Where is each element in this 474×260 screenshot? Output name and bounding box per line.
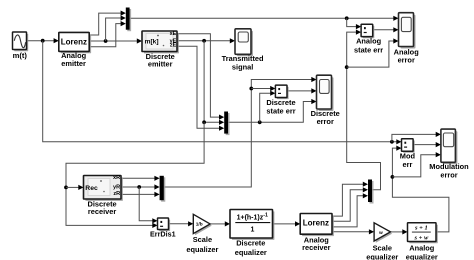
label Discrete error xyxy=(311,109,340,126)
junction node yE at Mux2 xyxy=(202,120,206,124)
wire Analog state err out to Analog error scope in2 xyxy=(374,29,394,31)
arrowhead into ErrDis1 in1 xyxy=(152,218,157,223)
svg-text:xR: xR xyxy=(113,175,120,181)
block U2 Discrete emitter xyxy=(142,31,179,53)
scope Discrete error xyxy=(317,75,334,111)
arrowhead into Mux2 in3 xyxy=(219,126,224,131)
svg-text:ErrDis1: ErrDis1 xyxy=(150,229,176,238)
arrowhead into Analog equalizer xyxy=(402,229,407,234)
svg-text:Lorenz: Lorenz xyxy=(303,219,329,228)
block U6 Analog equalizer (s+1)/(s+w) xyxy=(408,223,438,244)
svg-text:Lorenz: Lorenz xyxy=(61,38,87,47)
label Analog equalizer xyxy=(406,243,438,260)
arrowhead into Mux4 in1 xyxy=(363,182,368,187)
label Discrete emitter xyxy=(146,52,175,69)
svg-text:signal: signal xyxy=(232,63,253,72)
svg-text:s + 1: s + 1 xyxy=(414,224,428,231)
arrowhead into Discrete error scope in1 xyxy=(311,77,316,82)
label Transmitted signal xyxy=(222,54,264,71)
wire xR to Mux3 in1 xyxy=(121,177,155,179)
wire Analog emitter out1 xE to Mux1 in1 xyxy=(89,13,121,35)
wire Scale equalizer G1 out to Discrete equalizer xyxy=(210,223,226,225)
arrowhead into Mux1 in2 xyxy=(121,15,126,20)
label Mod err xyxy=(400,152,416,169)
wire branch to Analog error scope in3 xyxy=(347,41,394,67)
svg-text:error: error xyxy=(317,117,334,126)
junction node analog states xyxy=(345,16,349,20)
label Scale equalizer 1 xyxy=(186,235,218,254)
arrowhead into Mux1 in3 xyxy=(121,21,126,26)
wire branch to Modulation error scope in3 xyxy=(392,155,436,177)
svg-text:1: 1 xyxy=(250,227,254,234)
svg-text:error: error xyxy=(398,56,415,65)
sum S2 Analog state err xyxy=(361,24,374,38)
mux M2 discrete emitter states xyxy=(224,112,229,136)
junction node transmitted yE xyxy=(202,39,206,43)
svg-text:Rec: Rec xyxy=(85,185,98,192)
svg-text:xE: xE xyxy=(170,31,177,37)
svg-text:Scale: Scale xyxy=(193,235,212,244)
svg-text:emitter: emitter xyxy=(148,60,173,69)
arrowhead into Discrete state err in2 xyxy=(270,91,275,96)
arrowhead into ErrDis1 in2 xyxy=(152,223,157,228)
label Analog receiver xyxy=(302,236,330,253)
wire Discrete emitter xE to Mux2 in1 xyxy=(177,34,220,117)
arrowhead into Modulation error scope in2 xyxy=(436,142,441,147)
sum S1 Discrete state err xyxy=(275,85,288,99)
wire Discrete emitter zE to Mux2 in3 xyxy=(177,46,220,128)
arrowhead into Mux3 in2 xyxy=(154,184,159,189)
wire Analog receiver out2 to Mux4 in2 xyxy=(332,190,364,222)
arrowhead into Discrete emitter xyxy=(137,38,142,43)
wire Scale equalizer G2 out to Analog equalizer xyxy=(391,231,404,233)
label Modulation error xyxy=(429,162,469,180)
wire Analog receiver out3 to Mux4 in3 xyxy=(332,196,364,227)
arrowhead into Scale equalizer G1 xyxy=(188,221,193,226)
scope Transmitted signal xyxy=(235,29,253,57)
arrowhead into Discrete state err in1 xyxy=(270,86,275,91)
wire Analog emitter out3 zE to Mux1 in3 xyxy=(89,24,121,47)
block U3 Discrete receiver xyxy=(84,175,123,201)
svg-text:equalizer: equalizer xyxy=(235,248,267,257)
svg-text:equalizer: equalizer xyxy=(366,252,398,260)
gain G1 Scale equalizer 1/b xyxy=(193,214,212,235)
wire yE down to Mux2 in2 xyxy=(204,41,220,123)
junction node discrete transmitted states xyxy=(258,120,262,124)
wire yR down to ErrDis1 in1 xyxy=(139,187,153,221)
wire yE branch up to Mux1 in2 xyxy=(106,18,122,41)
arrowhead into Analog error scope in2 xyxy=(393,27,398,32)
wire m(t) up to Modulation error scope in1 xyxy=(392,134,437,141)
svg-text:emitter: emitter xyxy=(61,59,86,68)
mux M3 discrete receiver states xyxy=(160,176,166,202)
wire Analog emitter out2 yE to Discrete emitter xyxy=(89,40,137,42)
label Analog emitter xyxy=(61,51,87,68)
arrowhead into Analog state err in1 xyxy=(356,24,361,29)
arrowhead into Analog error scope in1 xyxy=(393,16,398,21)
wire yE down-left to Discrete receiver and ErrDis1 xyxy=(66,122,204,225)
svg-text:equalizer: equalizer xyxy=(406,252,438,260)
wire Mux1 output to Analog error scope in1 xyxy=(130,17,395,19)
arrowhead into Mux3 in3 xyxy=(154,192,159,197)
svg-text:equalizer: equalizer xyxy=(186,245,218,254)
svg-text:Scale: Scale xyxy=(373,243,392,252)
arrowhead into Mod err in1 xyxy=(396,139,401,144)
wire Analog equalizer out up to Mod err in2 xyxy=(392,148,449,232)
arrowhead into Discrete receiver xyxy=(78,185,83,190)
svg-text:err: err xyxy=(402,160,412,169)
wire yR to Mux3 in2 xyxy=(121,186,155,188)
arrowhead into Analog error scope in3 xyxy=(393,38,398,43)
block U4 Discrete equalizer 1+(h-1)z^-1 / 1 xyxy=(230,210,274,240)
arrowhead into Mux4 in2 xyxy=(363,187,368,192)
svg-text:receiver: receiver xyxy=(302,243,330,252)
arrowhead into Discrete equalizer xyxy=(225,221,230,226)
label Discrete state err xyxy=(266,98,295,116)
arrowhead into Mux1 in1 xyxy=(121,11,126,16)
label Discrete equalizer xyxy=(235,239,267,258)
wire branch to Discrete state err in1 xyxy=(251,88,271,90)
label Scale equalizer 2 xyxy=(366,243,398,260)
wire Discrete equalizer out to Analog receiver xyxy=(273,223,296,225)
junction node m(t) at Mod err xyxy=(390,140,394,144)
arrowhead into Modulation error scope in1 xyxy=(436,132,441,137)
junction node equalized signal xyxy=(391,175,395,179)
sum S4 ErrDis1 xyxy=(158,218,171,231)
arrowhead into Discrete error scope in3 xyxy=(311,99,316,104)
svg-text:Discrete: Discrete xyxy=(236,239,265,248)
wire Mux4 output up to Analog state err in2 xyxy=(347,32,381,190)
wire Mod err out to Modulation error scope in2 xyxy=(413,144,437,146)
source m(t) sine wave generator xyxy=(13,32,29,51)
mux M4 analog receiver states xyxy=(368,180,374,204)
wire Discrete emitter yE to Transmitted signal scope xyxy=(177,40,231,42)
svg-text:Analog: Analog xyxy=(356,37,382,46)
svg-text:Analog: Analog xyxy=(409,243,435,252)
label Analog state err xyxy=(354,37,383,55)
svg-text:zR: zR xyxy=(113,191,120,197)
svg-text:yR: yR xyxy=(113,185,120,191)
wire Analog receiver out4 to Scale equalizer G2 xyxy=(332,231,370,233)
junction node received signal xyxy=(64,186,68,190)
svg-text:m[k]: m[k] xyxy=(145,38,159,45)
wire m(t) branch down and across to Mod err xyxy=(43,41,398,142)
arrowhead into Analog state err in2 xyxy=(356,30,361,35)
arrowhead into Modulation error scope in3 xyxy=(436,152,441,157)
arrowhead into Discrete error scope in2 xyxy=(311,88,316,93)
label Analog error xyxy=(394,47,420,64)
gain G2 Scale equalizer w xyxy=(374,223,392,243)
svg-text:state err: state err xyxy=(354,45,383,54)
junction node analog received states xyxy=(345,65,349,69)
wire zR to Mux3 in3 xyxy=(121,193,155,195)
junction node yE xyxy=(104,39,108,43)
svg-text:m(t): m(t) xyxy=(13,51,28,60)
block U1 Lorenz Analog emitter xyxy=(59,32,91,53)
scope Analog error xyxy=(399,13,416,49)
svg-text:receiver: receiver xyxy=(88,207,116,216)
arrowhead into Analog emitter U1 xyxy=(54,38,59,43)
wire branch into Discrete receiver xyxy=(66,186,79,188)
svg-text:s + w: s + w xyxy=(413,234,428,241)
wire Discrete state err out to Discrete error scope in2 xyxy=(287,90,312,92)
wire branch to Analog state err in1 xyxy=(347,18,357,26)
sum S3 Mod err xyxy=(402,139,415,153)
junction node yR xyxy=(137,185,141,189)
wire Analog receiver out1 to Mux4 in1 xyxy=(332,184,364,216)
label Discrete receiver xyxy=(88,200,117,217)
scope Modulation error xyxy=(441,129,458,164)
arrowhead into Mux3 in1 xyxy=(154,176,159,181)
wire Mux2 output to Discrete error scope in3 xyxy=(228,102,312,123)
junction node m(t) xyxy=(41,39,45,43)
wire branch to Discrete state err in2 xyxy=(260,93,271,122)
svg-text:state err: state err xyxy=(266,107,295,116)
arrowhead into Transmitted signal scope xyxy=(230,38,235,43)
arrowhead into Mux4 in3 xyxy=(363,193,368,198)
arrowhead into Mod err in2 xyxy=(396,146,401,151)
mux M1 analog emitter states xyxy=(126,8,131,32)
block U5 Lorenz Analog receiver xyxy=(300,214,334,237)
wire ErrDis1 output to Scale equalizer G1 xyxy=(169,223,189,225)
label m(t) xyxy=(13,51,28,60)
arrowhead into Analog receiver xyxy=(295,221,300,226)
svg-text:error: error xyxy=(440,171,457,180)
junction node discrete received states xyxy=(249,87,253,91)
label ErrDis1 xyxy=(150,229,176,238)
wire m(t) output to Analog emitter xyxy=(27,40,55,42)
arrowhead into Scale equalizer G2 xyxy=(369,229,374,234)
arrowhead into Mux2 in2 xyxy=(219,120,224,125)
svg-text:w: w xyxy=(378,230,383,235)
wire Mux3 output up to Discrete error scope in1 xyxy=(164,80,312,188)
svg-text:zE: zE xyxy=(170,42,177,48)
arrowhead into Mux2 in1 xyxy=(219,115,224,120)
svg-text:1/b: 1/b xyxy=(196,222,203,228)
